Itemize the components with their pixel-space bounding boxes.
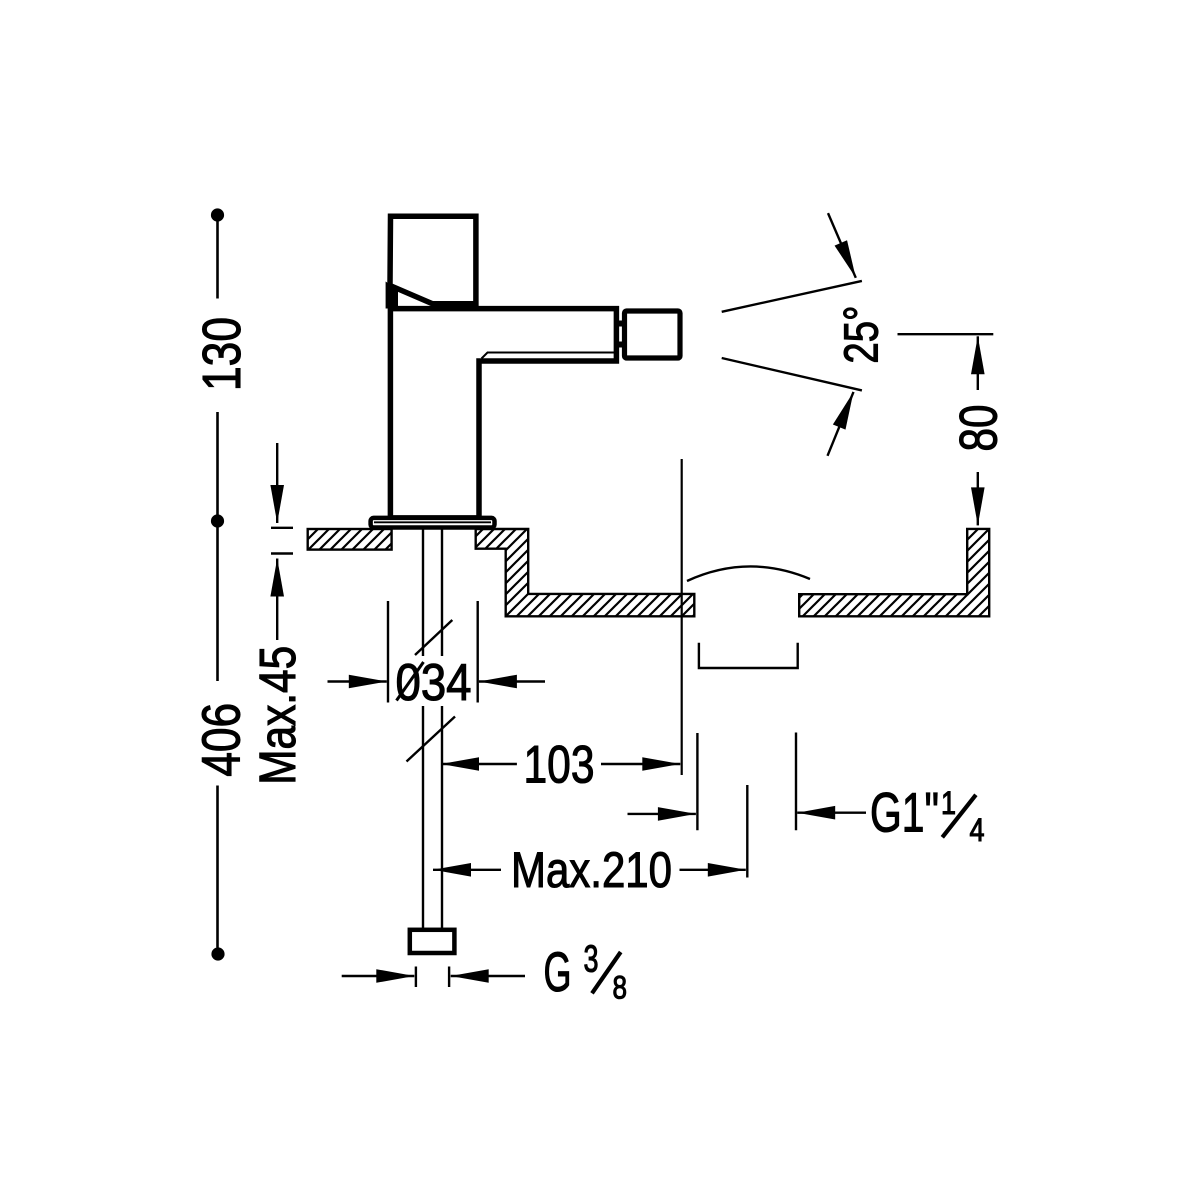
handle <box>390 216 476 304</box>
svg-text:Max.45: Max.45 <box>249 646 306 785</box>
G3/8 tick left <box>415 967 417 988</box>
80 arrow down <box>977 472 979 525</box>
left axis: dot top <box>211 208 224 221</box>
Max.210 arrow right <box>680 869 746 871</box>
25 deg arrow upper <box>828 213 856 278</box>
countertop left section (hatched) <box>308 529 392 550</box>
svg-text:8: 8 <box>613 970 628 1006</box>
svg-text:3: 3 <box>584 939 599 981</box>
svg-text:1: 1 <box>941 785 956 821</box>
left axis line seg4 <box>216 786 219 948</box>
svg-text:4: 4 <box>970 812 985 848</box>
svg-text:130: 130 <box>192 317 252 391</box>
Ø34 arrow right <box>479 680 545 682</box>
G1 1/4 arrow pointing right <box>628 813 696 815</box>
Ø34 extension line right <box>477 601 479 703</box>
faucet body and spout <box>390 309 616 518</box>
basin rim arc <box>687 566 810 581</box>
svg-text:Max.210: Max.210 <box>511 842 672 898</box>
Ø34 arrow left <box>328 680 387 682</box>
base flange <box>371 518 495 528</box>
svg-text:406: 406 <box>192 703 252 777</box>
svg-text:G: G <box>544 940 572 1003</box>
25 deg upper cone line <box>722 281 862 312</box>
Ø34 extension line left <box>387 601 389 703</box>
G3/8 tick right <box>448 967 450 988</box>
103 arrow right <box>601 763 680 765</box>
G3/8 arrow pointing left <box>451 975 525 977</box>
Max.210 extension line right <box>746 785 748 878</box>
Max.45 tick bottom <box>271 552 293 554</box>
Max.45 dimension arrow up <box>276 559 278 641</box>
spout-aerator connector tabs <box>616 321 625 327</box>
Max.210 arrow left <box>433 869 501 871</box>
svg-text:25°: 25° <box>836 306 889 364</box>
handle lever base strip <box>386 282 398 309</box>
103 extension line (spout end) <box>681 459 683 775</box>
G1 1/4 arrow pointing left <box>797 812 866 814</box>
svg-text:80: 80 <box>950 405 1009 452</box>
thread break diagonal 2 <box>407 717 456 762</box>
svg-text:103: 103 <box>524 736 595 795</box>
countertop basin step section (hatched) <box>476 529 695 616</box>
countertop right section (hatched) <box>799 529 989 616</box>
25 deg lower cone line <box>722 358 862 390</box>
thread break diagonal 1 <box>415 620 452 655</box>
Max.45 tick top <box>271 527 293 529</box>
threaded rod <box>422 530 424 930</box>
svg-text:034: 034 <box>396 654 472 712</box>
spout underside inner line <box>482 353 615 359</box>
left axis line seg3 <box>216 527 219 681</box>
left axis line seg2 <box>216 412 219 515</box>
103 arrow left <box>441 763 517 765</box>
G3/8 arrow pointing right <box>342 975 415 977</box>
G1 1/4 extension line left <box>696 733 698 830</box>
Max.45 dimension arrow down <box>276 443 278 523</box>
G1 1/4 extension line right <box>795 733 797 831</box>
left axis: dot bottom <box>211 947 224 960</box>
svg-text:G1": G1" <box>870 780 939 843</box>
drain outline <box>699 643 798 668</box>
25 deg arrow lower <box>828 392 854 456</box>
label Ø34 <box>394 656 472 706</box>
left axis line seg1 <box>216 221 219 299</box>
aerator <box>625 311 681 358</box>
G3/8 end block <box>410 930 455 953</box>
left axis: dot middle <box>211 514 224 527</box>
80 arrow up <box>977 336 979 390</box>
80 reference line <box>898 333 994 335</box>
